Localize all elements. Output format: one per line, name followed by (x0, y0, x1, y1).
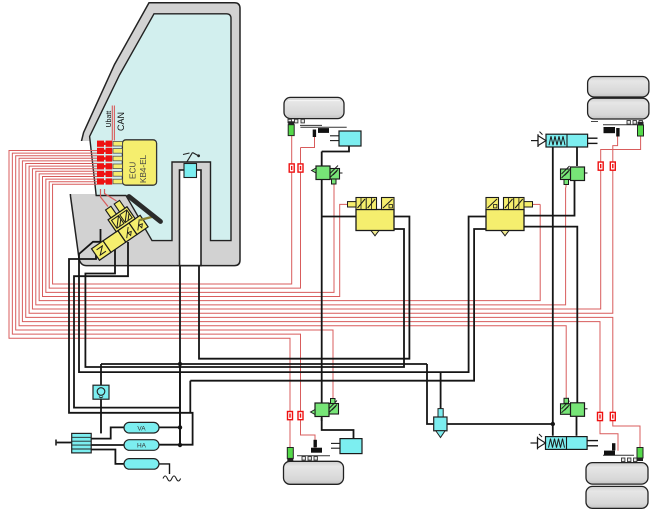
wire supply line middle (101, 363, 427, 365)
wire RR ABS valve stub (565, 184, 567, 188)
wire dryer to VA tank (91, 427, 124, 438)
hand brake lever (183, 153, 200, 163)
wire FR pad local (301, 137, 315, 148)
connector FL sensor plug (288, 412, 293, 420)
modulator front axle (348, 198, 395, 236)
wheel RL twin (586, 455, 648, 508)
svg-text:CAN: CAN (116, 112, 126, 131)
reservoir HA (124, 440, 159, 451)
cab outline (69, 3, 240, 266)
wire ECU to FL pad (12, 153, 300, 411)
label Ubatt (106, 111, 113, 128)
node junction supply (178, 362, 182, 366)
foot module rod (140, 217, 154, 221)
wire foot valve circuit 3 to front modulator (85, 229, 404, 367)
wire ECU to RR sensor (32, 169, 600, 309)
wire test connector to rear relay (447, 423, 553, 425)
ABS valve RR (561, 166, 588, 185)
wire FL connector to pad (301, 420, 316, 448)
wire RR relay outlet 2 (588, 142, 598, 144)
wire foot valve circuit 2 to air unit (74, 242, 180, 408)
wire air unit feed upper (100, 364, 102, 385)
speed sensor RL (637, 448, 643, 462)
wire compressor feed (56, 442, 72, 444)
hand brake valve (184, 164, 197, 178)
wire FL connector to sensor (289, 420, 291, 448)
ABS valve FL (311, 399, 339, 417)
connector FR sensor plug (289, 164, 294, 172)
reservoir VA (124, 422, 159, 433)
reservoir aux (124, 459, 159, 470)
wire FR sensor local (291, 136, 293, 164)
wire test connector stub line (440, 372, 442, 409)
wire VA tank line (159, 426, 180, 428)
connector FL pad plug (298, 412, 303, 420)
relay valve RL (531, 434, 588, 449)
wire ECU to FL ABS valve (16, 156, 333, 399)
wire front axle service riser (321, 152, 323, 422)
connector FR pad plug (298, 164, 303, 172)
wire front modulator left port (322, 216, 356, 218)
air dryer (56, 433, 91, 453)
wire RR pad local (613, 136, 618, 162)
wire ECU to FR pad (49, 148, 300, 289)
wire FR ABS valve stub (333, 184, 335, 188)
wire rear modulator delivery line 2 (190, 229, 486, 381)
wire hand brake valve line 1 (179, 172, 181, 445)
wire link line (189, 381, 191, 413)
wheel FR (284, 97, 347, 127)
brake cylinder FR (330, 131, 361, 146)
brake pad RR (604, 127, 620, 137)
speed sensor FR (288, 121, 294, 135)
wire ECU to RL ABS valve (19, 158, 566, 398)
wire ECU to FR sensor (53, 170, 292, 284)
wire tank riser (179, 364, 181, 445)
wire ECU to FR ABS valve (46, 179, 334, 292)
connector RR pad plug (610, 162, 615, 170)
ECU pins (113, 141, 122, 183)
wire ECU to FL sensor (9, 151, 290, 412)
svg-text:KB4-EL: KB4-EL (139, 154, 148, 183)
wire foot valve circuit 1 to HA tank (69, 251, 193, 445)
relay valve RR (531, 132, 588, 147)
pressure regulator (93, 385, 109, 399)
brake pad FR (313, 128, 329, 137)
wire RR sensor local (601, 136, 641, 162)
wire rear modulator stub (532, 203, 541, 205)
wire hand brake valve line 2 to front modulator (199, 172, 409, 359)
connector RL sensor plug (598, 412, 603, 420)
wire front modulator stub (340, 204, 348, 206)
svg-text:ECU: ECU (129, 162, 138, 179)
op ECU U1 (122, 140, 156, 185)
wire dryer to HA tank (91, 444, 124, 446)
wire ECU to foot brake module (101, 189, 117, 207)
wire ECU to RR ABS valve (36, 171, 566, 305)
connector RR sensor plug (598, 162, 603, 170)
node junction rear relay (551, 422, 555, 426)
wire ECU to RL pad (26, 164, 613, 413)
wire foot valve circuit 4 to rear modulator (79, 217, 486, 373)
wire CAN (113, 106, 115, 141)
brake pad RL (604, 443, 615, 455)
svg-text:VA: VA (137, 425, 146, 432)
wire RR relay outlet 1 (588, 137, 598, 139)
wire ECU to RL sensor (22, 161, 600, 413)
pedestal slot (180, 170, 202, 266)
wire Ubatt (111, 106, 113, 141)
exhaust symbol (163, 476, 181, 481)
wire ECU to rear modulator (39, 174, 540, 301)
node junction VA (178, 425, 182, 429)
brake cylinder FL (331, 439, 362, 454)
wire RL relay outlet 1 (588, 440, 599, 442)
test coupling (434, 409, 447, 438)
wire rear modulator right port 1 to RR valve (524, 181, 575, 216)
wire RR relay to valve link (576, 147, 578, 166)
wire ECU to front modulator (43, 177, 340, 297)
foot brake module (78, 196, 148, 261)
wheel FL (284, 456, 344, 485)
node junction HA (178, 443, 182, 447)
svg-text:HA: HA (137, 443, 147, 450)
wire third tank exhaust line (159, 464, 170, 474)
speed sensor RR (638, 122, 644, 136)
wire line to test connector (427, 364, 434, 424)
wire RL valve to relay link (576, 417, 578, 436)
wire FR cylinder link (322, 146, 349, 152)
modulator rear axle (486, 198, 533, 236)
wheel RR twin (588, 77, 649, 125)
connector RL pad plug (610, 412, 615, 420)
brake pedal (129, 197, 161, 222)
brake pad FL (311, 440, 322, 453)
wire rear relay riser (552, 147, 554, 436)
wire RL connector to sensor (613, 420, 640, 448)
wire rear modulator right port 2 to RL valve (524, 227, 578, 403)
ABS valve RL (561, 398, 588, 416)
wire FL cylinder link (322, 418, 354, 440)
wire RL connector to pad (600, 420, 618, 451)
ABS valve FR (312, 166, 343, 185)
wire RL relay outlet 2 (588, 445, 599, 447)
svg-text:Ubatt: Ubatt (106, 111, 113, 128)
wire ECU to RR pad (29, 166, 613, 313)
ECU connector blocks (97, 141, 112, 185)
wire air unit feed lower (100, 399, 102, 433)
cab interior window (90, 14, 231, 241)
label CAN (116, 112, 126, 131)
speed sensor FL (287, 448, 293, 462)
wire dryer to third tank (91, 450, 124, 464)
